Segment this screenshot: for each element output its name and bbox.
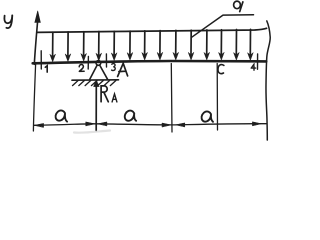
node 4 tick (257, 54, 259, 69)
load label q (234, 1, 241, 9)
dimension label a (segment 1) (56, 110, 68, 121)
dim arrow into mid tick from right (176, 123, 185, 127)
left dimension extension line (33, 65, 35, 132)
label 1 (45, 66, 47, 72)
dim arrow right end (252, 122, 261, 126)
dim arrow into support tick from right (98, 122, 107, 126)
node 3 tick (105, 54, 107, 67)
y-axis label y (4, 15, 12, 28)
label 3 (112, 64, 116, 71)
load arrow 7 (144, 31, 146, 54)
dim arrow into mid tick from left (162, 123, 171, 127)
y-axis arrowhead (35, 11, 41, 23)
dimension label a (segment 3) (202, 111, 213, 121)
y-axis line (34, 22, 37, 65)
distributed load line q (37, 28, 266, 32)
reaction arrowhead (94, 80, 100, 86)
support hatching (73, 81, 116, 86)
load arrow 8 (159, 31, 161, 54)
load arrow 13 (235, 30, 237, 55)
load arrow 6 (129, 31, 131, 54)
load arrow 4 (98, 32, 100, 55)
load arrow 2 (67, 32, 69, 56)
dim arrow left end (34, 123, 43, 127)
load label leader line (192, 15, 254, 38)
faint eraser smudge below support (74, 131, 110, 133)
load arrow 3 (83, 32, 85, 55)
label 4 (251, 64, 255, 70)
node C extension line (216, 64, 218, 131)
dimension line (34, 124, 266, 126)
label C (218, 65, 224, 74)
label 2 (79, 64, 84, 71)
beam (33, 61, 267, 63)
node 2 tick (87, 56, 89, 69)
dim arrow into support tick from left (86, 122, 95, 126)
label A (support point) (118, 63, 128, 76)
reaction arrow R_A shaft (95, 86, 97, 131)
load arrow 12 (220, 30, 222, 54)
load arrow 10 (190, 30, 192, 54)
right end cut stroke (266, 21, 270, 140)
load arrow 1 (52, 32, 54, 56)
load arrow 9 (175, 30, 177, 54)
pin support circle (96, 61, 101, 66)
mid dimension extension line (170, 64, 173, 133)
support ground line (72, 79, 119, 81)
load arrow 11 (206, 30, 208, 54)
node 1 tick (40, 51, 42, 69)
pin support triangle (90, 65, 108, 79)
label R subscript A (112, 94, 117, 102)
dimension label a (segment 2) (125, 111, 136, 121)
load arrow 5 (113, 31, 115, 54)
label R (101, 86, 108, 102)
load arrow 14 (249, 29, 251, 54)
